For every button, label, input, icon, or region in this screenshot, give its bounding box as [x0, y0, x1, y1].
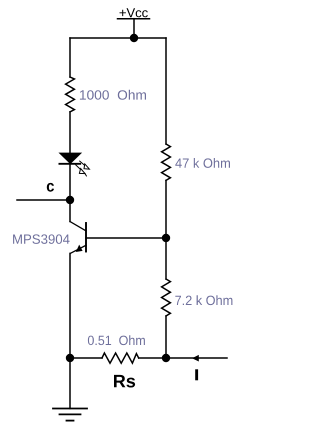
wire bottom left segment	[70, 357, 102, 359]
wire resistor to LED	[69, 112, 71, 154]
current arrow head	[192, 355, 199, 362]
wire current input	[166, 357, 227, 359]
junction dot at c node	[66, 196, 74, 204]
value label 1000 Ohm	[80, 90, 146, 100]
transistor Q1 emitter lead	[70, 245, 86, 253]
resistor Rs 0.51 Ohm	[102, 353, 139, 363]
label I	[195, 369, 198, 380]
value label 7.2 k Ohm	[175, 295, 232, 305]
wire 7.2k to bottom rail	[165, 316, 167, 358]
ground bar 2	[60, 413, 81, 415]
LED D1 triangle	[60, 153, 81, 163]
ground bar 1	[53, 408, 87, 410]
resistor 7.2 k Ohm	[162, 279, 171, 316]
label Rs	[114, 375, 135, 388]
wire LED to collector node	[69, 164, 71, 222]
wire right rail upper	[165, 38, 167, 144]
LED arrow 1	[80, 161, 90, 169]
node c label	[47, 183, 54, 192]
resistor 1000 Ohm	[66, 77, 75, 112]
LED cathode bar	[59, 163, 80, 165]
wire 47k to divider node	[165, 180, 167, 238]
transistor Q1 collector lead	[70, 222, 86, 231]
wire base to divider node	[86, 237, 166, 239]
wire emitter down	[69, 253, 71, 358]
transistor Q1 emitter arrow	[76, 245, 83, 252]
ground bar 3	[67, 420, 74, 422]
junction dot at Vcc node	[130, 34, 138, 42]
wire top rail	[70, 37, 166, 39]
resistor 47 k Ohm	[162, 144, 171, 180]
value label 0.51 Ohm	[88, 335, 145, 345]
value label 47 k Ohm	[175, 158, 230, 168]
junction dot bottom left	[66, 354, 74, 362]
wire c lead	[17, 199, 70, 201]
LED arrow 2	[76, 165, 87, 176]
+Vcc underline bar	[118, 18, 150, 20]
transistor Q1 base bar	[85, 223, 87, 252]
wire resistor to bottom right node	[139, 357, 166, 359]
junction dot divider node	[162, 234, 170, 242]
wire divider node to 7.2k	[165, 238, 167, 279]
transistor Q1 label MPS3904	[13, 234, 70, 244]
wire ground stem	[69, 358, 71, 409]
junction dot bottom right	[162, 354, 170, 362]
wire left rail upper	[69, 38, 71, 77]
node +Vcc label	[120, 8, 148, 17]
wire Vcc stem	[133, 19, 135, 38]
